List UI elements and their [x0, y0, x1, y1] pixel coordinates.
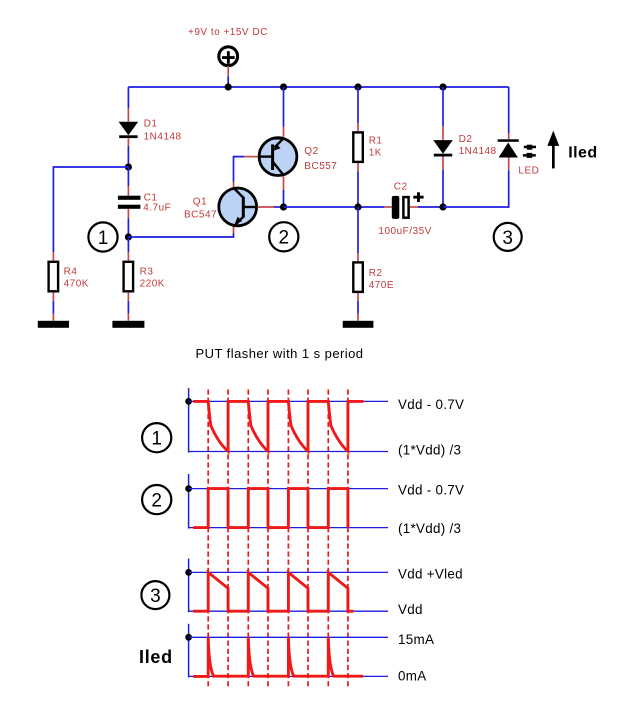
svg-text:15mA: 15mA: [398, 632, 434, 647]
svg-text:D2: D2: [459, 134, 473, 145]
wire R4 to ground: [52, 301, 54, 314]
svg-text:(1*Vdd) /3: (1*Vdd) /3: [398, 521, 461, 536]
node 2 top reference line: [189, 488, 388, 490]
svg-text:1N4148: 1N4148: [459, 146, 497, 157]
node 2 axis dot: [185, 485, 192, 492]
svg-text:Vdd - 0.7V: Vdd - 0.7V: [398, 397, 464, 412]
node junction R1 branch: [354, 83, 361, 90]
wire rail to Q2 emitter: [283, 87, 285, 127]
transistor Q2 collector pin: [283, 177, 285, 191]
svg-text:Vdd: Vdd: [398, 602, 423, 617]
diode D1: [119, 122, 139, 138]
resistor R1 pin bottom: [357, 163, 359, 172]
resistor R3: [124, 262, 134, 292]
transistor Q1 base pin: [258, 206, 275, 208]
svg-text:(1*Vdd) /3: (1*Vdd) /3: [398, 442, 461, 457]
svg-text:1K: 1K: [369, 148, 382, 159]
svg-text:1: 1: [98, 228, 109, 249]
svg-text:1: 1: [151, 429, 162, 450]
resistor R2 pin bottom: [357, 293, 359, 301]
svg-text:100uF/35V: 100uF/35V: [378, 226, 431, 237]
node 2 waveform axis: [188, 474, 190, 529]
svg-text:Q1: Q1: [193, 197, 207, 208]
wire mid rail: [284, 206, 385, 208]
node junction D1/C1/R4: [125, 163, 132, 170]
node junction Q2 emitter branch: [280, 83, 287, 90]
wire R3 to ground: [127, 301, 129, 314]
node junction D2 branch: [439, 83, 446, 90]
wire D1 to node A: [127, 146, 129, 167]
capacitor C1: [118, 196, 140, 209]
Iled current arrow: [547, 131, 559, 169]
ground under R4: [38, 321, 69, 328]
node 1 bottom reference line: [189, 451, 388, 453]
wire top rail: [128, 86, 508, 88]
svg-text:470K: 470K: [64, 278, 89, 289]
svg-text:1N4148: 1N4148: [144, 132, 182, 143]
wire node 1 to Q1 emitter: [128, 233, 233, 237]
wire rail to R1: [357, 87, 359, 123]
transistor Q1: [219, 188, 257, 227]
wire power to rail: [227, 77, 229, 88]
wire rail to D1: [127, 87, 129, 109]
transistor Q2 base pin: [244, 156, 258, 158]
wire R1/R2 node to R2: [357, 207, 359, 253]
capacitor C1 pin bottom: [127, 209, 129, 219]
resistor R4 pin bottom: [52, 292, 54, 301]
transistor Q1 emitter pin: [233, 227, 235, 234]
waveform section: [139, 388, 464, 688]
wire D2 to bottom node: [442, 170, 444, 207]
LED pin bottom: [508, 158, 510, 171]
svg-text:BC547: BC547: [184, 210, 217, 221]
resistor R4: [49, 262, 59, 292]
Iled bottom reference line: [189, 675, 388, 677]
node 1 waveform trace: [193, 401, 363, 451]
svg-text:C2: C2: [394, 182, 408, 193]
svg-text:3: 3: [502, 228, 513, 249]
node junction 1: [125, 233, 132, 240]
svg-text:220K: 220K: [140, 278, 165, 289]
ground under R2: [343, 321, 374, 328]
resistor R3 pin top: [127, 252, 129, 260]
ground pin R4: [52, 314, 54, 321]
wire rail to D2: [442, 87, 444, 126]
node 3 bubble: [494, 223, 522, 251]
svg-text:LED: LED: [518, 165, 539, 176]
diode D1 pin top: [127, 109, 129, 122]
Iled waveform axis: [188, 624, 190, 678]
svg-text:0mA: 0mA: [398, 668, 426, 683]
capacitor C2: [392, 192, 424, 219]
node 3 bottom reference line: [189, 610, 388, 612]
resistor R4 pin top: [52, 252, 54, 260]
diode D1 pin bottom: [127, 138, 129, 146]
svg-text:2: 2: [151, 491, 162, 512]
svg-text:Iled: Iled: [568, 144, 597, 161]
diode D2: [433, 140, 453, 156]
node 2 bottom reference line: [189, 527, 388, 529]
transistor Q1 collector pin: [233, 182, 235, 188]
capacitor C1 pin top: [127, 186, 129, 196]
wire Q1 base to node 2 junction: [274, 206, 284, 208]
resistor R2 pin top: [357, 253, 359, 261]
node 3 waveform axis: [188, 559, 190, 613]
LED: [498, 139, 519, 157]
node 3 waveform trace: [193, 572, 353, 611]
LED light arrow 1: [524, 145, 536, 150]
Iled top reference line: [189, 636, 388, 638]
svg-text:Vdd +Vled: Vdd +Vled: [398, 567, 463, 582]
node 1 top reference line: [189, 400, 388, 402]
svg-text:4.7uF: 4.7uF: [143, 203, 171, 214]
node junction power: [225, 83, 232, 90]
transistor Q2: [258, 138, 297, 176]
svg-text:R2: R2: [369, 268, 383, 279]
ground pin R2: [357, 314, 359, 321]
svg-text:R3: R3: [140, 266, 154, 277]
ground pin R3: [127, 314, 129, 321]
capacitor C2 pin left: [384, 206, 391, 208]
svg-text:470E: 470E: [369, 280, 394, 291]
svg-text:2: 2: [279, 228, 290, 249]
svg-text:R4: R4: [64, 266, 78, 277]
svg-text:Iled: Iled: [139, 647, 173, 667]
transistor Q2 emitter pin: [283, 127, 285, 137]
wire node A to R4: [53, 167, 128, 252]
wire C1 to node 1: [127, 219, 129, 238]
power terminal: [219, 47, 238, 66]
svg-text:R1: R1: [369, 136, 383, 147]
LED pin top: [508, 133, 510, 139]
wire node to LED branch: [443, 170, 509, 207]
svg-text:D1: D1: [144, 119, 158, 130]
resistor R2: [353, 262, 363, 292]
wire rail to LED: [508, 87, 510, 133]
node 1 axis dot: [185, 398, 192, 405]
node junction R1/R2: [354, 203, 361, 210]
wire node A to C1: [127, 167, 129, 186]
node 2 waveform trace: [193, 489, 348, 528]
svg-text:Vdd - 0.7V: Vdd - 0.7V: [398, 482, 464, 497]
Iled axis dot: [185, 634, 192, 641]
node junction 2: [280, 203, 287, 210]
node 2 bubble: [269, 222, 298, 251]
svg-text:+9V to +15V DC: +9V to +15V DC: [188, 27, 268, 38]
ground under R3: [112, 321, 144, 328]
node 3 label circle: [141, 581, 169, 609]
wire C2 to D2 branch: [418, 206, 443, 208]
node 3 top reference line: [189, 571, 388, 573]
resistor R3 pin bottom: [127, 292, 129, 301]
wire node 1 to R3: [127, 237, 129, 252]
capacitor C2 pin right: [410, 206, 418, 208]
wire Q2 collector to node 2 junction: [283, 190, 285, 207]
wire Q1 collector to Q2 base: [234, 157, 245, 182]
wire R1 to mid rail: [357, 172, 359, 208]
Iled waveform trace: [193, 637, 363, 676]
timing grid dashed lines: [208, 390, 348, 689]
LED light arrow 2: [523, 153, 536, 158]
power pin stub: [227, 66, 229, 77]
node junction D2 bottom: [439, 203, 446, 210]
node 1 label circle: [142, 423, 171, 452]
svg-text:PUT flasher with 1 s period: PUT flasher with 1 s period: [196, 346, 364, 361]
node 1 bubble: [88, 222, 117, 251]
node 2 label circle: [142, 485, 171, 514]
node 3 axis dot: [185, 569, 192, 576]
diode D2 pin bottom: [442, 157, 444, 171]
node 1 waveform axis: [188, 388, 190, 453]
svg-text:3: 3: [150, 586, 161, 607]
wire R2 to ground: [357, 301, 359, 314]
svg-text:BC557: BC557: [304, 161, 337, 172]
diode D2 pin top: [442, 126, 444, 140]
svg-text:Q2: Q2: [304, 146, 318, 157]
resistor R1 pin top: [357, 123, 359, 131]
resistor R1: [353, 132, 363, 162]
